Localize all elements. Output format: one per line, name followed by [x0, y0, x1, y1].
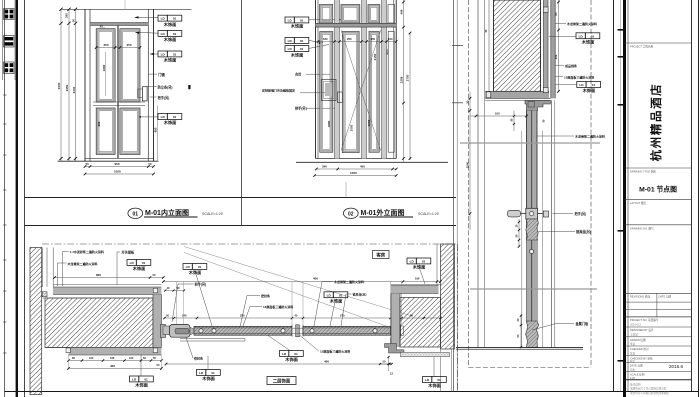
svg-text:400: 400	[360, 164, 365, 168]
elevation 01 lower left panel	[96, 108, 115, 155]
svg-text:01: 01	[133, 211, 139, 217]
section label handle	[553, 213, 574, 215]
plan overall dim 400 line lower	[166, 363, 390, 365]
title block inner left line	[627, 0, 629, 392]
plan long diagonal leader 1	[184, 247, 412, 317]
svg-text:150: 150	[371, 37, 376, 41]
svg-text:DRAWING TITLE 图名: DRAWING TITLE 图名	[630, 170, 656, 174]
svg-text:2400: 2400	[57, 82, 61, 89]
section door leaf	[527, 111, 538, 209]
svg-text:木饰面: 木饰面	[132, 265, 146, 272]
svg-text:01: 01	[142, 261, 146, 265]
plan dim extension verticals left	[68, 355, 70, 370]
svg-text:340: 340	[322, 164, 327, 168]
plan right jamb stipple band	[401, 352, 450, 356]
svg-text:240: 240	[182, 313, 187, 317]
elevation 02 bottom dim line 1	[316, 168, 396, 170]
section right face lines	[551, 100, 553, 348]
section wall face inner short line	[488, 0, 490, 91]
section band lower line	[485, 99, 550, 101]
section leaf casing lines	[521, 131, 523, 347]
row separator line	[25, 225, 457, 227]
title block bottom thick line	[625, 379, 692, 381]
svg-text:01: 01	[173, 17, 177, 21]
plan right frame assembly	[391, 328, 396, 335]
svg-text:850: 850	[386, 49, 390, 54]
svg-text:250: 250	[65, 13, 69, 18]
elevation 02 right tall panel	[388, 32, 394, 153]
svg-text:01: 01	[211, 371, 215, 375]
svg-text:800: 800	[97, 121, 101, 126]
plan overall dim 400 line upper	[163, 281, 440, 283]
svg-text:50: 50	[86, 162, 89, 166]
sheet outer right line	[698, 0, 700, 397]
svg-text:01: 01	[300, 47, 304, 51]
svg-text:13厚面板三遍防火涂料: 13厚面板三遍防火涂料	[263, 304, 293, 309]
svg-text:木饰面: 木饰面	[329, 298, 343, 305]
title block revisions divider	[656, 293, 658, 317]
svg-text:1050: 1050	[114, 169, 121, 173]
elevation 01 top line	[61, 8, 191, 10]
svg-text:M-01外立面图: M-01外立面图	[361, 208, 405, 217]
svg-text:木饰面: 木饰面	[290, 23, 304, 30]
plan room label box	[373, 251, 390, 259]
section small dims near leaf top	[513, 111, 515, 132]
svg-text:250: 250	[127, 43, 132, 47]
section boundary ticks	[452, 44, 463, 46]
title strip top line	[25, 197, 457, 199]
svg-text:木饰面: 木饰面	[163, 119, 177, 126]
plan long diagonal leader 2	[184, 253, 390, 328]
svg-text:25: 25	[100, 24, 103, 28]
svg-text:180: 180	[323, 37, 328, 41]
svg-text:DATE 日期: DATE 日期	[659, 294, 672, 298]
title block revision row lines	[625, 301, 692, 303]
svg-text:270: 270	[340, 313, 345, 317]
svg-text:2150: 2150	[373, 53, 377, 60]
svg-text:杭州精品酒店: 杭州精品酒店	[649, 83, 663, 162]
section label wood frame top	[555, 23, 566, 25]
section dashed detail boundary right	[590, 0, 592, 368]
svg-text:100: 100	[495, 111, 500, 115]
svg-text:金属门吸: 金属门吸	[575, 321, 590, 326]
svg-text:01: 01	[300, 19, 304, 23]
elevation 01 leader to label 4	[140, 116, 158, 118]
svg-text:250: 250	[104, 43, 109, 47]
svg-text:01: 01	[339, 293, 343, 297]
elevation 02 leader 1	[309, 19, 342, 21]
svg-text:400: 400	[313, 277, 318, 281]
svg-text:DRAWN 绘图: DRAWN 绘图	[630, 338, 646, 342]
fold mark group 2	[4, 36, 14, 48]
elevation 01 mid rail	[93, 101, 145, 103]
elevation 02 label box 2	[285, 38, 294, 44]
section head frame inner rects	[528, 102, 535, 108]
plan right jamb narrow column hatch	[441, 244, 455, 349]
plan label box E below	[280, 351, 289, 357]
svg-text:DRAWING NO. 图号: DRAWING NO. 图号	[630, 226, 654, 230]
elevation 02 outer frame	[315, 0, 317, 159]
sheet thick left border	[16, 0, 18, 397]
svg-text:M-01 节点图: M-01 节点图	[639, 185, 677, 194]
svg-text:2750: 2750	[406, 74, 410, 81]
svg-text:木饰面: 木饰面	[427, 382, 441, 389]
svg-text:把手(另): 把手(另)	[295, 106, 307, 111]
section moulding strip	[551, 0, 555, 98]
svg-text:2258: 2258	[399, 76, 403, 83]
svg-text:SCALE 比例: SCALE 比例	[630, 372, 645, 376]
svg-text:PROJECT NO. 项目编号: PROJECT NO. 项目编号	[630, 318, 659, 322]
section dashed detail boundary left	[468, 0, 470, 368]
drawing area right border	[613, 0, 615, 392]
svg-text:木饰面: 木饰面	[134, 382, 148, 389]
elevation 01 leader to label 3	[150, 53, 158, 55]
plan left bottom finish band	[69, 348, 162, 356]
title 02 underline	[360, 216, 414, 218]
fold mark group 1	[4, 9, 14, 20]
svg-text:王某某: 王某某	[630, 333, 638, 337]
section door bottom hatched block	[526, 321, 539, 348]
svg-text:400: 400	[324, 359, 329, 363]
section left dims near bottom	[520, 316, 522, 348]
elevation 02 label box 3	[285, 46, 294, 52]
elevation 02 transom panel B	[341, 5, 360, 24]
elevation 02 leader 3	[309, 45, 330, 49]
svg-text:1680: 1680	[102, 64, 106, 71]
elevation 01 label box 3	[158, 51, 167, 57]
svg-text:木饰面: 木饰面	[582, 87, 596, 94]
section label wood frame mid	[537, 135, 574, 137]
plan left blocking square	[42, 292, 47, 297]
plan hinge ring 2	[212, 329, 216, 333]
svg-text:100: 100	[129, 356, 134, 360]
elevation 02 lock detail	[322, 80, 337, 101]
plan right frame step profile	[385, 338, 405, 354]
elevation 01 door outer frame	[84, 9, 86, 161]
svg-text:13厚面板三遍防火涂料: 13厚面板三遍防火涂料	[564, 74, 594, 79]
svg-text:木龙骨架二遍防火涂料: 木龙骨架二遍防火涂料	[574, 134, 605, 139]
sheet outer left line	[4, 0, 6, 397]
section blocking square 2	[543, 87, 548, 92]
svg-text:1:4水泥砂浆二遍防火涂料: 1:4水泥砂浆二遍防火涂料	[70, 249, 104, 254]
svg-text:锁具组(另): 锁具组(另)	[576, 229, 591, 234]
plan dim 800 line	[55, 277, 164, 279]
elevation 01 bottom dim line 2	[85, 173, 154, 175]
svg-text:木龙骨架二遍防火涂料: 木龙骨架二遍防火涂料	[566, 21, 597, 26]
plan left wall return block hatch	[45, 298, 153, 348]
elevation 01 leader handle text	[150, 96, 157, 98]
section header wall hatch	[494, 0, 541, 91]
section label lockset	[538, 230, 575, 232]
svg-text:把手(另): 把手(另)	[575, 211, 587, 216]
elevation 01 centerline above transom	[124, 0, 126, 9]
svg-text:01: 01	[173, 115, 177, 119]
section left dims near head	[469, 91, 471, 230]
svg-text:日期: 日期	[630, 367, 635, 371]
section head frame detail	[525, 100, 550, 110]
title 01 underline	[144, 216, 198, 218]
svg-text:PROJECT 工程名称: PROJECT 工程名称	[630, 45, 654, 49]
svg-text:250: 250	[347, 37, 352, 41]
right gutter thin line	[620, 0, 622, 392]
svg-text:木饰面: 木饰面	[163, 36, 177, 43]
svg-text:未经许可不得擅自复制修改本图纸: 未经许可不得擅自复制修改本图纸	[630, 391, 669, 395]
elevation 02 transom panel A	[320, 5, 333, 24]
left edge ruler ticks	[3, 94, 6, 96]
elevation 02 transom panel D	[388, 5, 395, 24]
plan label box G bottom left	[130, 376, 139, 382]
svg-text:木饰面: 木饰面	[290, 51, 304, 58]
elevation 02 leader 2	[309, 41, 324, 43]
svg-text:DATE 日期: DATE 日期	[630, 363, 643, 367]
elevation 01 revision mark	[188, 85, 190, 89]
plan label wood frame	[58, 262, 67, 264]
svg-text:498: 498	[399, 9, 403, 14]
svg-text:2050: 2050	[350, 124, 354, 131]
section label moulding	[555, 64, 564, 66]
plan dash-dot boundary top	[42, 243, 458, 245]
elevation 01 leader to label 2	[135, 32, 158, 33]
svg-text:01: 01	[591, 34, 595, 38]
svg-text:01: 01	[173, 32, 177, 36]
svg-text:REVISIONS 修改: REVISIONS 修改	[630, 294, 650, 298]
svg-text:密封条: 密封条	[193, 355, 203, 360]
svg-text:木饰面: 木饰面	[201, 375, 215, 382]
plan left wall layer lines	[42, 248, 44, 288]
svg-text:250: 250	[240, 313, 245, 317]
svg-text:400: 400	[110, 364, 115, 368]
svg-text:门镜: 门镜	[158, 72, 165, 77]
elevation 01 label box 4	[158, 114, 167, 120]
title 02 circle	[343, 208, 358, 218]
title block row line 3	[625, 199, 692, 201]
svg-text:锁具组(另): 锁具组(另)	[353, 291, 367, 296]
svg-text:合页: 合页	[295, 72, 302, 77]
svg-text:2016-012: 2016-012	[630, 323, 642, 327]
svg-text:250: 250	[554, 54, 558, 59]
svg-text:密封条: 密封条	[260, 293, 270, 298]
section dim right of hatch	[558, 0, 560, 91]
elevation 01 handle plate	[142, 87, 147, 101]
fold mark group 3	[4, 62, 14, 74]
elevation 02 ground line	[296, 161, 448, 163]
section wall face lines	[477, 0, 479, 348]
plan label box A	[127, 260, 136, 266]
elevation 01 leader hinge text	[148, 73, 157, 75]
svg-text:防尘条(另): 防尘条(另)	[158, 84, 173, 89]
plan hinge ring 1	[199, 329, 203, 333]
svg-text:木饰面: 木饰面	[284, 356, 298, 363]
plan dash-dot boundary right	[457, 244, 459, 392]
svg-text:木龙骨架二遍防火涂料: 木龙骨架二遍防火涂料	[333, 279, 364, 284]
section blocking square 1	[486, 92, 491, 98]
plan right jamb wall layer lines	[436, 244, 438, 286]
svg-text:客房: 客房	[375, 252, 385, 259]
title 01 circle	[128, 208, 143, 218]
elevation 02 right dim lines	[403, 0, 405, 162]
elevation 02 lock small box	[338, 92, 343, 103]
elevation 02 swing diagonal lines	[341, 30, 381, 151]
plan door leaf piece 2	[303, 326, 391, 335]
svg-text:01: 01	[173, 53, 177, 57]
plan blocking squares at band corners	[153, 288, 157, 293]
svg-text:CHECKED 校对: CHECKED 校对	[630, 347, 649, 351]
elevation 01 panel width dim line	[96, 47, 140, 49]
plan right jamb vertical finish band	[391, 294, 400, 348]
section label box 1	[576, 33, 585, 39]
elevation 01 centre stiles	[116, 26, 118, 159]
section hinge circle below lock	[530, 249, 534, 253]
svg-text:160: 160	[415, 277, 420, 281]
svg-text:100: 100	[89, 356, 94, 360]
elevation 01 upper right panel	[120, 29, 140, 102]
plan right jamb label box D	[407, 258, 416, 264]
section label box 2	[577, 82, 586, 88]
plan leaf joint	[292, 325, 303, 337]
svg-text:50: 50	[149, 162, 152, 166]
elevation 02 inner top dim	[318, 41, 396, 43]
svg-text:650: 650	[153, 127, 157, 132]
svg-text:木龙骨架二遍防火涂料: 木龙骨架二遍防火涂料	[67, 261, 98, 266]
svg-text:把手(另): 把手(另)	[195, 282, 207, 287]
plan right jamb top finish band	[391, 284, 440, 286]
title block revisions header line	[625, 292, 692, 294]
svg-text:01: 01	[300, 39, 304, 43]
svg-text:01: 01	[437, 378, 441, 382]
svg-text:张某: 张某	[630, 351, 636, 355]
svg-text:SCALE=1:20: SCALE=1:20	[418, 212, 439, 216]
elevation 02 narrow tall panel	[369, 32, 379, 153]
elevation 01 upper left panel	[96, 29, 115, 102]
plan leaf extension lines	[175, 282, 177, 325]
svg-text:LAYOUT 楼层: LAYOUT 楼层	[630, 201, 646, 205]
elevation 02 mullion gray fills	[335, 0, 339, 159]
section header gray band bottom	[485, 91, 549, 98]
elevation 02 label box 1	[285, 17, 294, 23]
elevation 01 right lower dim 650	[156, 106, 158, 162]
section boundary double lines	[453, 0, 455, 392]
plan left wall gap lines	[43, 297, 153, 299]
section left dims near lock	[518, 219, 520, 247]
plan hinge ring 5	[373, 329, 377, 333]
elevation 02 left tall panel	[320, 32, 333, 153]
elevation 01 leader to label 1	[135, 16, 159, 18]
elevation 01 ground line	[58, 160, 159, 162]
title block thick left border	[623, 0, 626, 397]
fold ticks right gutter	[618, 29, 624, 31]
plan small dim 50 right of leaf	[380, 363, 392, 365]
svg-text:100: 100	[388, 37, 393, 41]
svg-text:01: 01	[592, 83, 596, 87]
elevation 02 stray extension line	[345, 182, 347, 198]
elevation 02 door leaf tall panel	[342, 32, 359, 153]
svg-text:800: 800	[96, 273, 101, 277]
svg-text:1050: 1050	[350, 171, 357, 175]
svg-text:木饰面: 木饰面	[163, 21, 177, 28]
sheet bottom border	[5, 391, 699, 393]
svg-text:定制玻璃门夹及磁吸固定: 定制玻璃门夹及磁吸固定	[261, 88, 295, 93]
elevation 01 label box 2	[158, 31, 167, 37]
sheet inner frame left line	[24, 0, 26, 397]
svg-text:2050: 2050	[367, 119, 371, 126]
elevation 02 transom panel C	[368, 5, 380, 24]
section label door bottom	[532, 324, 556, 331]
svg-text:01: 01	[294, 352, 298, 356]
svg-text:DESIGNED BY 设计: DESIGNED BY 设计	[630, 328, 654, 332]
plan left top finish band	[53, 284, 161, 286]
title block row line 1	[625, 42, 692, 44]
svg-text:SCALE=1:20: SCALE=1:20	[202, 212, 223, 216]
elevation 01 vertical dim 1680	[105, 52, 107, 96]
plan left vertical finish band	[153, 295, 161, 348]
title block row line 4	[625, 224, 692, 226]
plan hinge ring 4	[310, 329, 314, 333]
plan second floor finish label box	[267, 377, 296, 385]
plan left frame latch assembly	[161, 325, 166, 338]
section floor line	[456, 347, 583, 349]
plan small dim near left frame	[165, 290, 184, 292]
svg-text:13厚面板三遍防火涂料: 13厚面板三遍防火涂料	[320, 349, 350, 354]
plan leaf top dim line	[164, 317, 441, 319]
plan right jamb small dims	[388, 357, 390, 371]
svg-text:二层饰面: 二层饰面	[273, 378, 291, 385]
svg-text:M-01内立面图: M-01内立面图	[145, 208, 189, 217]
svg-text:02: 02	[348, 211, 354, 217]
plan label box C	[324, 292, 333, 298]
title block right border	[691, 0, 693, 392]
elevation 02 transom rail	[316, 23, 397, 27]
svg-text:开关面板: 开关面板	[122, 250, 136, 255]
section handle assembly	[508, 210, 521, 217]
section header gray band right	[544, 0, 549, 91]
plan left wall column hatch	[30, 248, 42, 395]
svg-text:本图所示尺寸均以现场实测为准: 本图所示尺寸均以现场实测为准	[630, 387, 667, 391]
section corner square top right	[543, 7, 548, 13]
elevation 01 transom rail	[90, 23, 148, 26]
svg-text:木饰面: 木饰面	[163, 57, 177, 64]
elevation 01 left dimension lines	[60, 9, 62, 161]
elevation 02 bottom dim line 2	[315, 175, 397, 177]
svg-text:2100: 2100	[72, 86, 76, 93]
plan dim 400 line left	[69, 367, 162, 369]
svg-text:1880: 1880	[327, 120, 331, 127]
section upper break line	[460, 142, 600, 144]
svg-text:950: 950	[115, 162, 120, 166]
svg-text:01: 01	[144, 378, 148, 382]
elevation 01 leader dust strip text	[147, 85, 157, 87]
elevation 02 mullions	[334, 0, 336, 159]
plan label switch plate	[117, 251, 120, 253]
section lock hatched block	[526, 219, 539, 240]
svg-text:把手(另): 把手(另)	[158, 95, 170, 100]
plan hinge ring 3	[281, 329, 285, 333]
elevation 01 lower right panel	[120, 108, 140, 155]
svg-text:01: 01	[198, 265, 202, 269]
title block row line 2	[625, 167, 692, 169]
plan label cement coat	[63, 251, 69, 253]
svg-text:成品线条: 成品线条	[565, 63, 577, 68]
svg-text:木饰面: 木饰面	[581, 39, 595, 46]
plan segment dim line below wall	[69, 360, 162, 362]
plan pocket lines below leaf	[180, 338, 245, 340]
section dashed detail boundary bottom	[469, 367, 592, 369]
svg-text:李某: 李某	[630, 342, 636, 346]
plan label box F below	[197, 370, 206, 376]
plan right jamb bottom label box	[423, 377, 432, 383]
top row divider between detail 01 and 02	[241, 0, 243, 226]
svg-text:01: 01	[422, 260, 426, 264]
svg-text:160: 160	[110, 356, 115, 360]
